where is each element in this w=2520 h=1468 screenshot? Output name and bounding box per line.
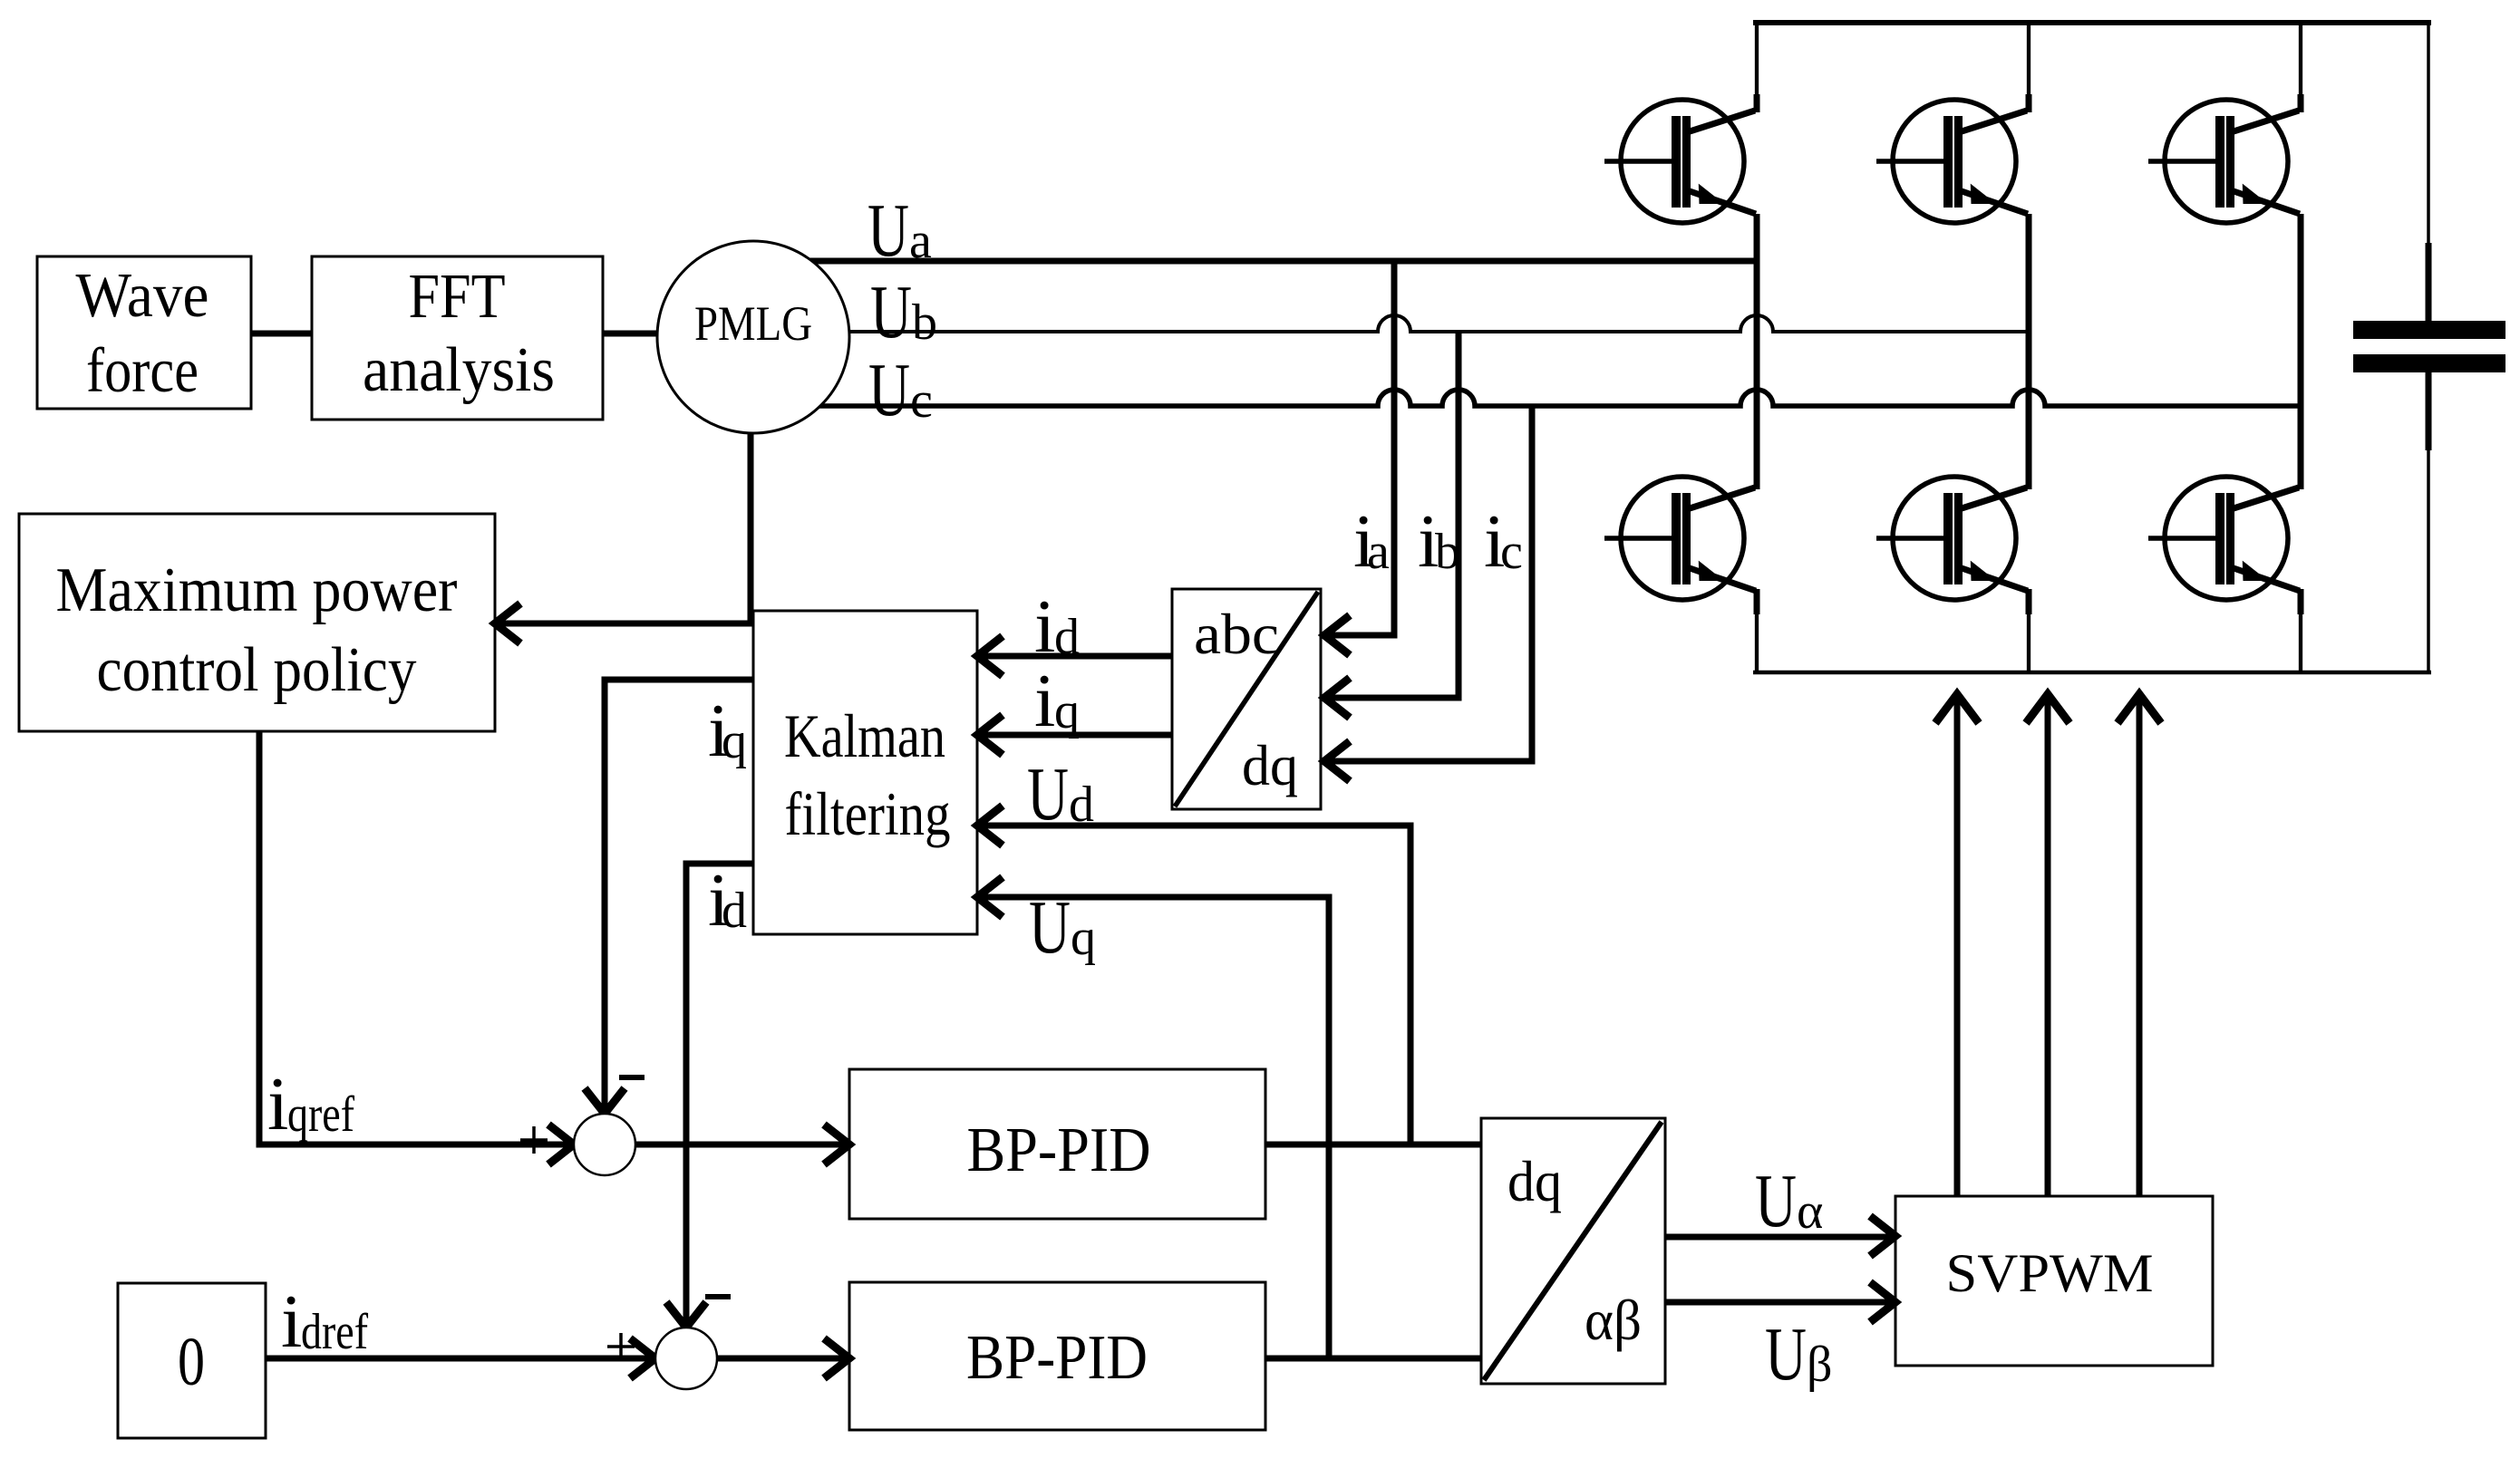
svg-text:PMLG: PMLG — [694, 296, 812, 351]
minus sign at sum junction 1 — [619, 1075, 645, 1080]
wire Uc: PMLG to bridge leg C (hops over ia,ib taps and legs A,B) — [753, 390, 2303, 406]
wire iq output: Kalman left to sum junction 1 — [605, 680, 753, 1110]
wire FFT analysis to PMLG — [603, 331, 671, 337]
svg-text:dq: dq — [1242, 733, 1298, 797]
svg-text:U: U — [1755, 1159, 1797, 1243]
box: Wave force — [37, 256, 251, 409]
wire BP-PID2 output to dq/ab box — [1265, 1356, 1481, 1362]
svg-text:FFT: FFT — [409, 262, 506, 332]
svg-text:a: a — [909, 213, 932, 269]
transistor Q5 (IGBT) — [1876, 477, 2028, 600]
box: dq/alpha-beta transform — [1481, 1118, 1665, 1384]
box: Kalman filtering — [753, 611, 977, 934]
svg-text:q: q — [722, 713, 747, 769]
box: BP-PID 1 — [849, 1069, 1265, 1219]
svg-text:d: d — [722, 883, 747, 939]
svg-text:U: U — [868, 348, 910, 432]
wire idref: 0 box to sum junction 2 — [266, 1356, 652, 1362]
wire ib: tap from Ub down into abc/dq — [1321, 332, 1459, 698]
svg-text:Maximum power: Maximum power — [56, 555, 458, 625]
svg-text:q: q — [1071, 910, 1096, 966]
svg-text:αβ: αβ — [1585, 1288, 1642, 1352]
wire U_alpha: dq/ab to SVPWM — [1665, 1234, 1892, 1241]
svg-text:d: d — [1069, 777, 1094, 833]
transistor Q3 (IGBT) — [2148, 100, 2300, 223]
box: FFT analysis — [312, 256, 603, 420]
svg-text:i: i — [267, 1062, 288, 1146]
wire Ud: tap on BP-PID1 output up and left into Kalman — [977, 826, 1410, 1144]
svg-text:BP-PID: BP-PID — [966, 1323, 1148, 1393]
sum junction 2 output wire to BP-PID 2 — [717, 1356, 846, 1362]
box: constant 0 — [118, 1283, 266, 1438]
wire Ub: PMLG to bridge leg B (hops over ia tap and leg A) — [753, 315, 2031, 332]
svg-text:a: a — [1367, 524, 1390, 580]
minus sign at sum junction 2 — [705, 1294, 731, 1299]
sum junction 1 (circle) — [574, 1114, 635, 1175]
svg-text:abc: abc — [1194, 602, 1279, 666]
svg-text:d: d — [1054, 609, 1080, 665]
svg-text:SVPWM: SVPWM — [1946, 1243, 2154, 1303]
svg-text:force: force — [86, 336, 199, 406]
wire id output: Kalman left to sum junction 2 — [686, 864, 753, 1324]
transistor Q4 (IGBT) — [1604, 477, 1756, 600]
wire gate drive 2: SVPWM up to bridge — [2045, 694, 2051, 1196]
svg-text:i: i — [1034, 659, 1055, 743]
box: SVPWM — [1895, 1196, 2213, 1366]
svg-text:dq: dq — [1507, 1149, 1562, 1213]
sum junction 1 output wire to BP-PID 1 — [635, 1142, 846, 1148]
box: Maximum power control policy — [19, 514, 495, 731]
wire phase leg A verticals — [1755, 20, 1759, 96]
wire iqref: Maximum power box down and right to sum junction 1 — [259, 731, 570, 1144]
svg-text:b: b — [912, 295, 937, 351]
svg-text:qref: qref — [287, 1087, 354, 1143]
svg-text:0: 0 — [178, 1324, 205, 1400]
plus sign at sum junction 2 — [607, 1345, 635, 1348]
wire DC bus bottom rail — [1753, 671, 2431, 675]
svg-text:U: U — [870, 270, 912, 354]
svg-text:Wave: Wave — [76, 261, 209, 331]
svg-text:i: i — [1034, 584, 1055, 669]
svg-text:α: α — [1797, 1183, 1823, 1240]
box: BP-PID 2 — [849, 1282, 1265, 1430]
svg-text:U: U — [1027, 752, 1069, 836]
svg-text:q: q — [1054, 683, 1080, 739]
svg-text:c: c — [910, 372, 933, 429]
wire ia: tap from Ua down into abc/dq — [1321, 261, 1394, 635]
transistor Q6 (IGBT) — [2148, 477, 2300, 600]
wire iq: abc/dq to Kalman — [977, 732, 1172, 739]
svg-text:U: U — [867, 188, 909, 273]
wire DC bus top rail — [1753, 20, 2431, 25]
diagonal of abc/dq box — [1175, 592, 1318, 806]
svg-text:BP-PID: BP-PID — [967, 1115, 1151, 1185]
wire Ua: PMLG to bridge leg A — [753, 258, 1759, 265]
svg-text:b: b — [1435, 524, 1460, 580]
wire Uq: tap on BP-PID2 output up and left into Kalman — [977, 897, 1329, 1358]
svg-text:analysis: analysis — [363, 335, 555, 405]
capacitor C (DC link) wires — [2427, 23, 2430, 321]
svg-text:control policy: control policy — [97, 635, 417, 705]
capacitor C bottom plate — [2353, 354, 2505, 372]
generator PMLG (circle) — [657, 241, 849, 433]
svg-text:Kalman: Kalman — [784, 701, 945, 770]
wire id: abc/dq to Kalman — [977, 653, 1172, 660]
wire Wave force to FFT analysis — [251, 331, 312, 337]
diagonal of dq/alpha-beta box — [1484, 1122, 1662, 1380]
wire phase leg C verticals — [2299, 20, 2302, 96]
capacitor C top plate — [2353, 321, 2505, 339]
svg-text:β: β — [1807, 1337, 1833, 1393]
svg-text:c: c — [1500, 524, 1523, 580]
transistor Q1 (IGBT) — [1604, 100, 1756, 223]
wire arrow into Maximum power control policy — [495, 621, 753, 627]
svg-text:i: i — [281, 1280, 302, 1364]
wire gate drive 3: SVPWM up to bridge — [2137, 694, 2143, 1196]
box: abc/dq transform — [1172, 589, 1321, 809]
transistor Q2 (IGBT) — [1876, 100, 2028, 223]
wire gate drive 1: SVPWM up to bridge — [1954, 694, 1961, 1196]
wire PMLG down to maximum-power arrow junction — [748, 399, 754, 626]
svg-text:U: U — [1765, 1312, 1807, 1396]
wire U_beta: dq/ab to SVPWM — [1665, 1299, 1892, 1306]
wire ic: tap from Uc down into abc/dq — [1321, 406, 1532, 761]
svg-text:filtering: filtering — [785, 779, 951, 848]
sum junction 2 (circle) — [655, 1328, 717, 1389]
svg-text:U: U — [1029, 885, 1071, 970]
wire BP-PID1 output to dq/ab box — [1265, 1142, 1481, 1148]
plus sign at sum junction 1 — [520, 1138, 548, 1142]
svg-text:dref: dref — [301, 1304, 368, 1360]
wire phase leg B verticals — [2027, 20, 2031, 96]
